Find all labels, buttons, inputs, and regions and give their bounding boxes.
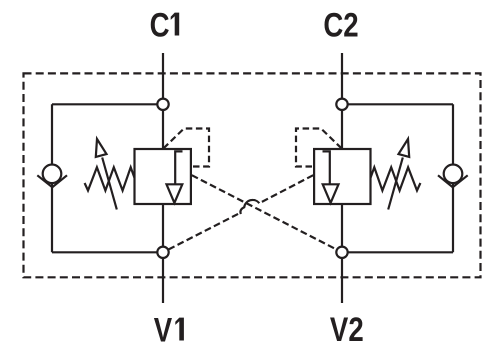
svg-text:C: C — [150, 5, 170, 44]
svg-text:V2: V2 — [330, 310, 364, 349]
svg-text:C2: C2 — [323, 6, 358, 45]
svg-text:V: V — [154, 310, 173, 349]
